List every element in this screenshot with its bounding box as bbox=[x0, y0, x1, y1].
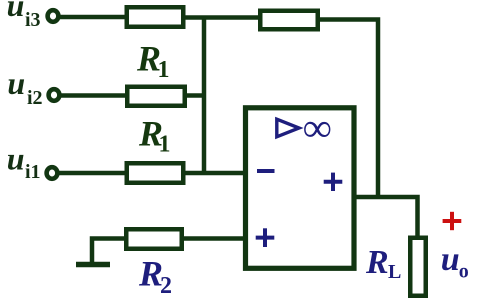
op-amp U1 body bbox=[246, 108, 355, 268]
terminal: input ui2 bbox=[49, 89, 60, 101]
svg-text:2: 2 bbox=[160, 273, 172, 299]
svg-text:u: u bbox=[7, 140, 25, 176]
svg-text:i2: i2 bbox=[27, 87, 43, 109]
wire: R1c output to op-amp inverting input bbox=[183, 171, 246, 176]
svg-text:1: 1 bbox=[159, 132, 171, 158]
wire: feedback resistor to top-right corner down to output node bbox=[318, 20, 378, 198]
resistor R1 (top, input ui3) bbox=[127, 7, 184, 27]
wire: bottom input row from terminal ui1 to R1c bbox=[58, 171, 129, 176]
svg-text:u: u bbox=[7, 0, 25, 23]
wire: R1a output through summing node to feedback resistor Rf bbox=[183, 15, 262, 20]
wire: R2 output to op-amp non-inverting input bbox=[182, 236, 246, 241]
wire: R1b output to summing bus bbox=[185, 93, 206, 98]
svg-text:u: u bbox=[7, 65, 25, 101]
op-amp U1 non-inverting input plus sign bbox=[256, 228, 275, 247]
resistor RL (load, vertical) bbox=[410, 238, 426, 296]
svg-text:1: 1 bbox=[158, 57, 170, 83]
terminal: input ui3 bbox=[48, 10, 59, 22]
wire: op-amp output to load corner and down to RL bbox=[356, 197, 418, 238]
svg-text:∞: ∞ bbox=[303, 105, 332, 150]
svg-text:R: R bbox=[365, 244, 389, 281]
resistor Rf (feedback, top) bbox=[260, 11, 318, 30]
wire: ground stub up and right to R2 bbox=[92, 239, 126, 267]
svg-text:L: L bbox=[388, 261, 401, 283]
svg-text:o: o bbox=[459, 260, 469, 282]
resistor R2 (non-inverting input to ground) bbox=[126, 229, 182, 249]
terminal: input ui1 bbox=[47, 167, 58, 179]
op-amp U1 output plus sign bbox=[324, 173, 343, 191]
resistor R1 (bottom, input ui1) bbox=[127, 163, 184, 183]
ground bbox=[76, 262, 110, 268]
svg-text:i1: i1 bbox=[25, 161, 41, 183]
wire: top row from terminal ui3 to R1a bbox=[59, 15, 129, 20]
svg-text:i3: i3 bbox=[25, 9, 41, 31]
op-amp U1 triangle symbol bbox=[277, 119, 299, 137]
wire: summing node vertical bus bbox=[202, 16, 207, 174]
op-amp U1 inverting input minus sign bbox=[257, 169, 275, 173]
resistor R1 (middle, input ui2) bbox=[127, 87, 185, 106]
wire: middle row from terminal ui2 to R1b bbox=[60, 93, 129, 98]
output polarity plus sign (red) bbox=[443, 212, 462, 230]
svg-text:u: u bbox=[441, 241, 460, 278]
